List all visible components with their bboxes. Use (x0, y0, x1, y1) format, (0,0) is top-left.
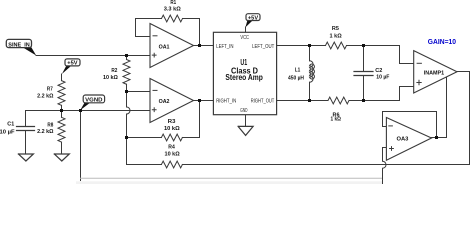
svg-text:OA2: OA2 (159, 99, 171, 105)
svg-text:RIGHT_OUT: RIGHT_OUT (251, 98, 274, 104)
svg-text:R5: R5 (332, 26, 340, 32)
svg-text:VCC: VCC (240, 35, 249, 41)
svg-text:2.2 kΩ: 2.2 kΩ (37, 129, 54, 135)
svg-text:SINE_IN: SINE_IN (8, 42, 29, 48)
svg-text:INAMP1: INAMP1 (424, 71, 444, 77)
svg-text:VGND: VGND (85, 98, 102, 104)
svg-text:450 µH: 450 µH (288, 75, 304, 81)
svg-text:LEFT_OUT: LEFT_OUT (252, 44, 274, 50)
svg-text:L1: L1 (295, 67, 301, 73)
svg-text:10 kΩ: 10 kΩ (165, 152, 180, 158)
svg-text:1 kΩ: 1 kΩ (331, 117, 342, 123)
svg-text:+5V: +5V (67, 61, 78, 67)
svg-text:GND: GND (240, 108, 247, 114)
svg-text:OA3: OA3 (397, 137, 410, 143)
svg-text:3.3 kΩ: 3.3 kΩ (164, 7, 181, 13)
svg-text:C2: C2 (375, 68, 383, 74)
svg-text:R4: R4 (168, 145, 175, 151)
svg-text:Stereo Amp: Stereo Amp (225, 73, 262, 82)
svg-text:R3: R3 (168, 119, 176, 125)
svg-text:OA1: OA1 (159, 45, 171, 51)
svg-text:C1: C1 (7, 122, 15, 128)
svg-text:10 kΩ: 10 kΩ (103, 75, 118, 81)
svg-text:R1: R1 (170, 0, 176, 6)
svg-text:1 kΩ: 1 kΩ (330, 33, 342, 39)
svg-text:GAIN=10: GAIN=10 (428, 37, 456, 46)
svg-text:2.2 kΩ: 2.2 kΩ (37, 93, 54, 99)
svg-text:10 kΩ: 10 kΩ (164, 126, 180, 132)
svg-text:10 µF: 10 µF (0, 129, 15, 135)
svg-text:LEFT_IN: LEFT_IN (216, 44, 234, 50)
svg-text:10 µF: 10 µF (376, 74, 389, 80)
svg-text:RIGHT_IN: RIGHT_IN (216, 98, 236, 104)
svg-text:R8: R8 (47, 123, 53, 129)
svg-text:+5V: +5V (248, 16, 259, 22)
svg-text:R7: R7 (47, 86, 53, 92)
svg-text:R2: R2 (111, 68, 118, 74)
